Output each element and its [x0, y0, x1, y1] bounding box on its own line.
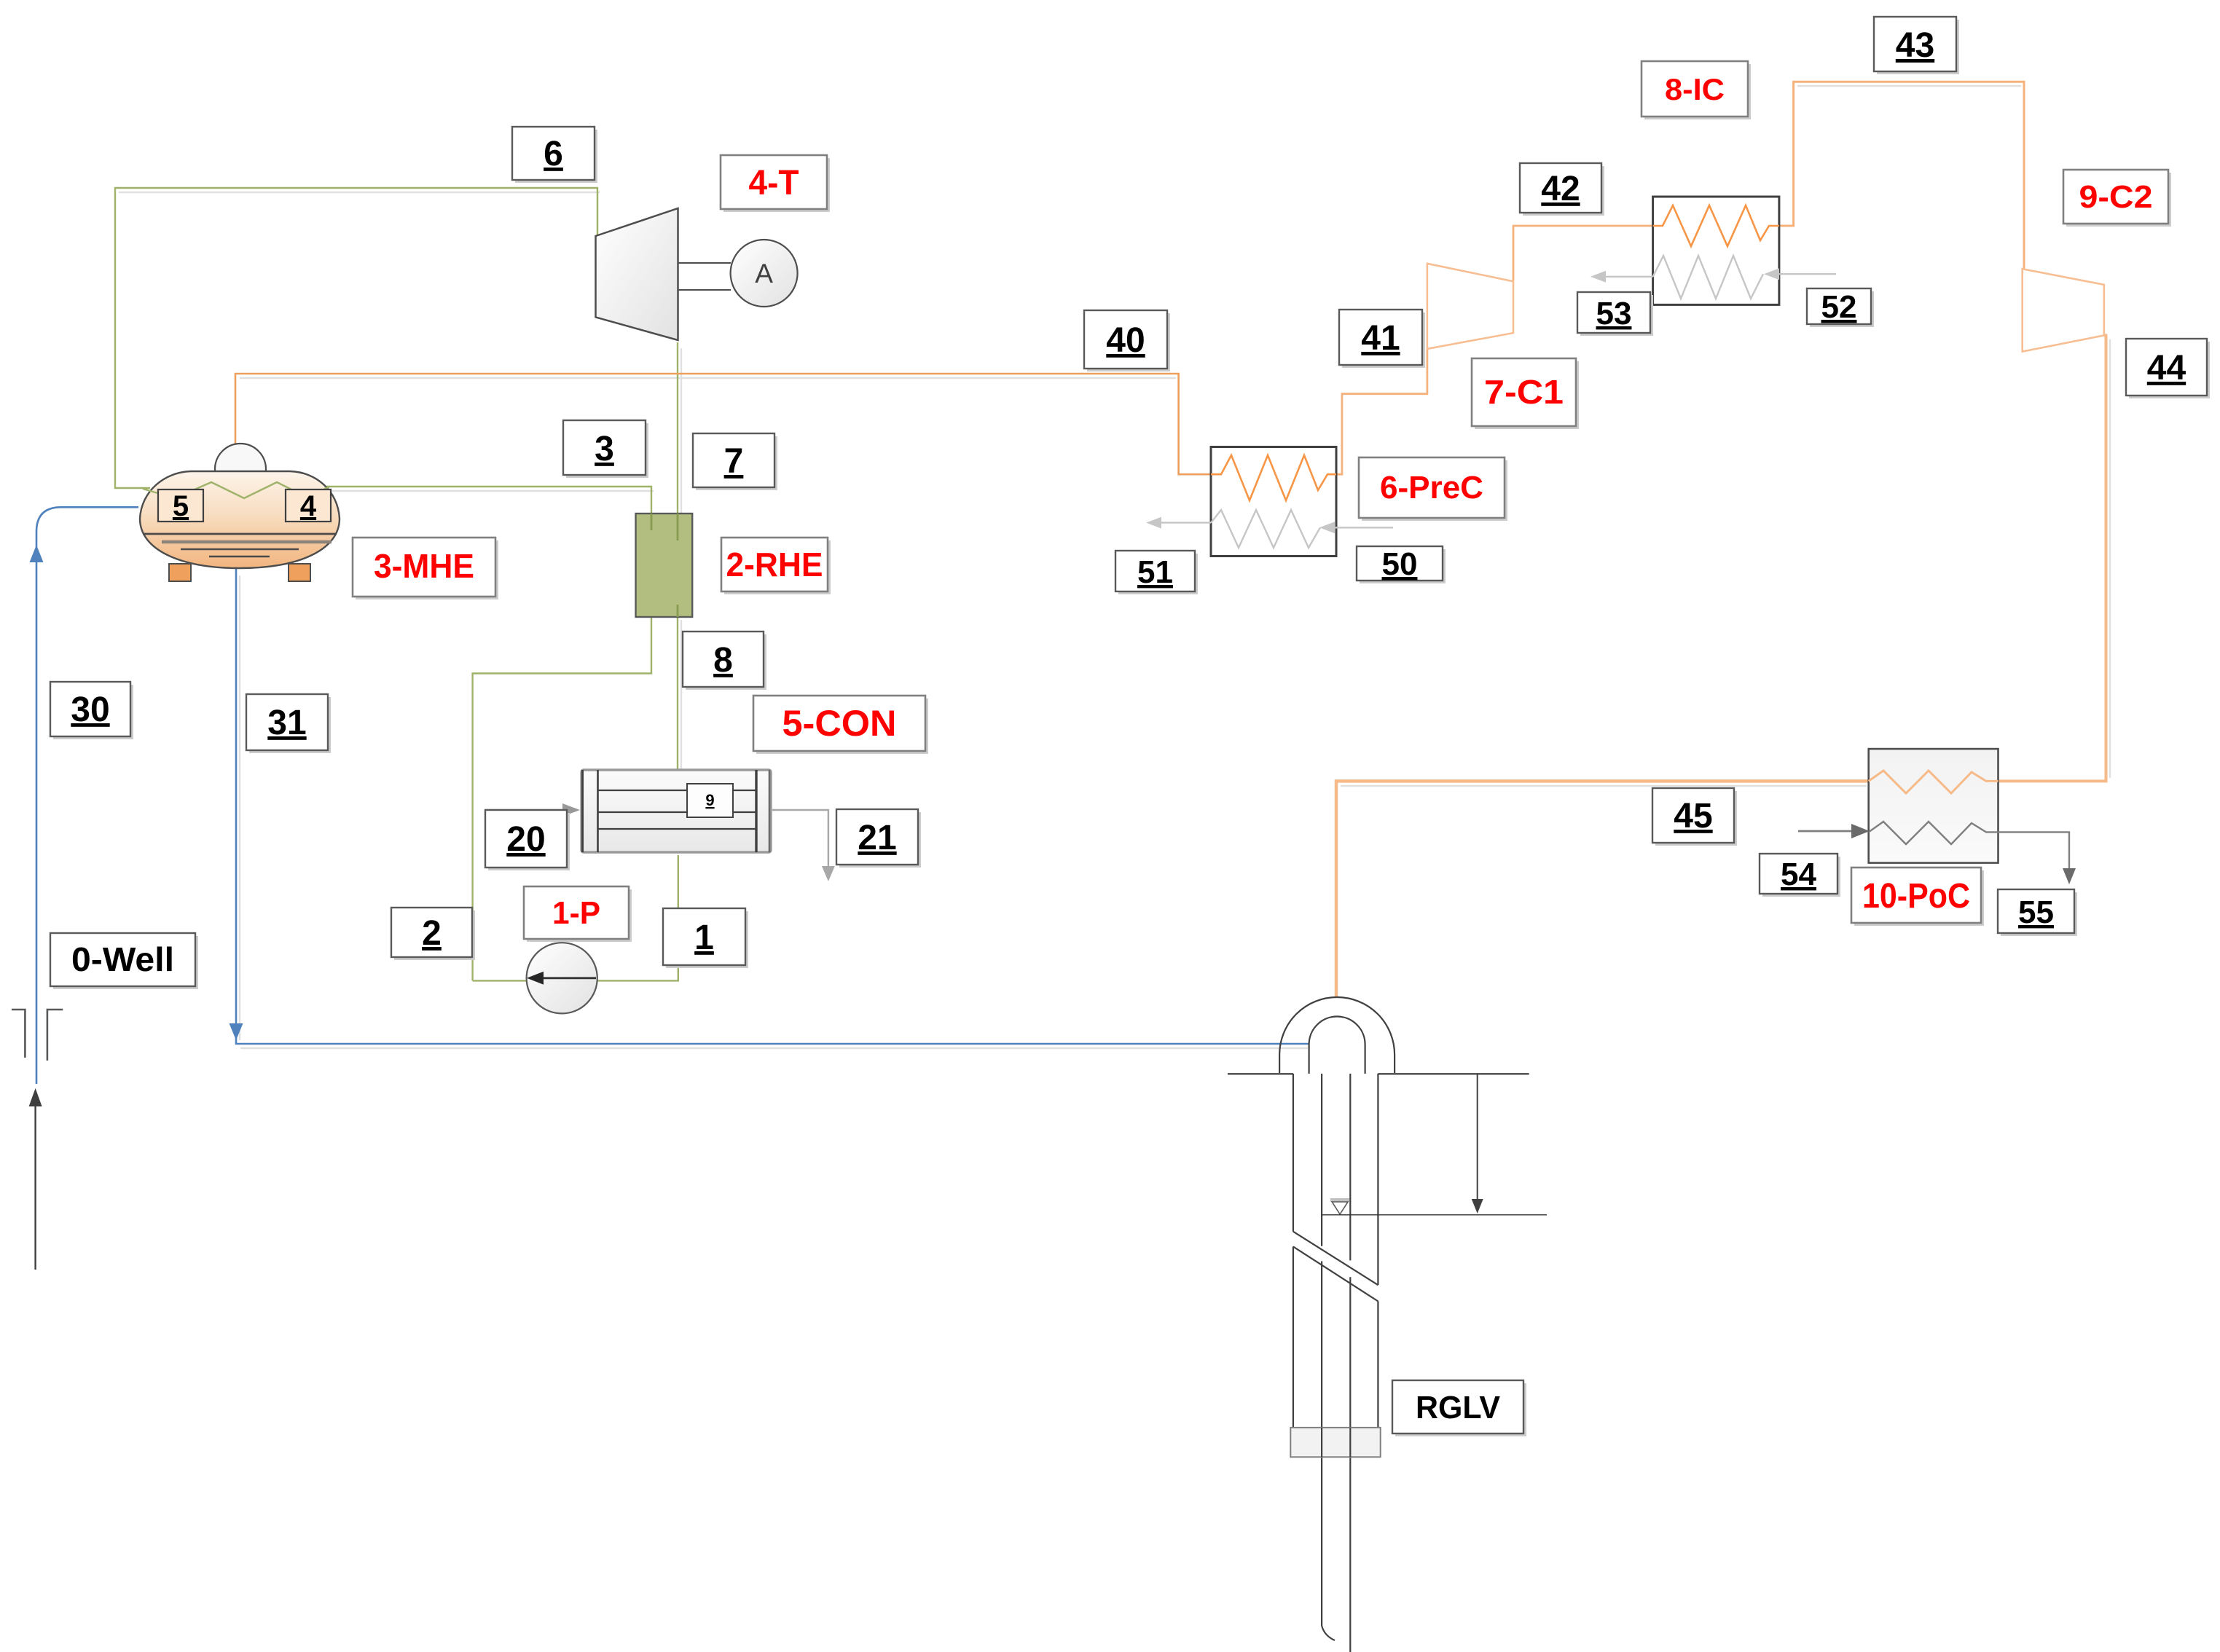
wire 40 (NCG from separator to 6-PreC, orange): [235, 374, 1212, 474]
svg-text:4-T: 4-T: [749, 164, 799, 202]
svg-text:40: 40: [1106, 321, 1145, 360]
postcooler 10-PoC: [1798, 749, 2076, 884]
svg-text:1: 1: [694, 919, 714, 957]
svg-text:43: 43: [1896, 26, 1934, 65]
svg-text:31: 31: [267, 704, 306, 742]
inner U: [1309, 1017, 1365, 1074]
label 9-C2: [2063, 170, 2171, 227]
heat exchanger 2-RHE: [636, 514, 693, 617]
depth arrow: [1472, 1074, 1483, 1214]
svg-text:8-IC: 8-IC: [1665, 72, 1725, 106]
coil zigzag through vessel (green): [143, 482, 329, 498]
turbine 4-T: [596, 208, 731, 340]
svg-text:52: 52: [1821, 289, 1857, 325]
svg-text:53: 53: [1596, 296, 1632, 331]
svg-text:A: A: [755, 259, 773, 288]
wellhead 0-Well casing brackets: [12, 1010, 63, 1061]
label 10-PoC: [1851, 868, 1984, 926]
svg-text:2: 2: [422, 914, 442, 953]
separator vessel 3-MHE: [140, 444, 340, 581]
water coil: [1869, 822, 1999, 844]
packer: [1290, 1428, 1380, 1457]
0-Well upflow arrow (black): [29, 1088, 42, 1270]
nozzle box 5: [158, 489, 203, 522]
nozzle box 4: [286, 489, 331, 522]
wire 3 (RHE to MHE coil, green): [326, 487, 651, 515]
tubing left wall: [1321, 1074, 1322, 1246]
svg-text:30: 30: [71, 691, 109, 729]
node 44: [2126, 339, 2210, 398]
water out arrow left: [1157, 522, 1211, 523]
tubing bottom break: [1322, 1626, 1335, 1640]
node 6: [512, 127, 597, 183]
node 3: [563, 420, 648, 478]
wire 44 (9-C2 to 10-PoC, orange): [1999, 335, 2106, 781]
label 3-MHE: [353, 538, 498, 599]
intercooler 8-IC: [1591, 197, 1836, 304]
node 43: [1874, 17, 1959, 74]
compressor 9-C2: [2023, 269, 2104, 352]
label 6-PreC: [1359, 457, 1507, 521]
node 53: [1577, 292, 1653, 336]
node 40: [1084, 310, 1170, 371]
svg-text:9: 9: [705, 791, 714, 809]
svg-text:0-Well: 0-Well: [71, 940, 174, 978]
leg right: [289, 564, 310, 581]
water in line right: [1330, 527, 1393, 528]
svg-text:1-P: 1-P: [552, 895, 600, 931]
node 50: [1357, 546, 1446, 583]
wire 42 (7-C1 to 8-IC, orange): [1513, 226, 1654, 280]
water out arrow right: [1999, 832, 2070, 873]
node 2: [391, 908, 475, 960]
wire 2 (RHE bottom to pump suction loop, green): [473, 615, 651, 980]
right casing wall: [1377, 1074, 1378, 1285]
water in line right: [1775, 273, 1836, 275]
svg-text:4: 4: [300, 490, 317, 522]
wire 1 (pump to condenser bottom, green): [473, 855, 678, 980]
RGLV well loop: [1279, 997, 1395, 1074]
small tag 9: [687, 784, 733, 817]
wire 30 (well to separator, blue): [36, 507, 138, 1084]
svg-text:5-CON: 5-CON: [783, 703, 897, 744]
svg-text:21: 21: [858, 819, 896, 857]
svg-text:44: 44: [2147, 349, 2186, 388]
node 8: [683, 632, 766, 690]
wire 45 (10-PoC to RGLV, orange): [1336, 781, 1869, 996]
body: [140, 471, 340, 568]
svg-text:7-C1: 7-C1: [1484, 373, 1564, 411]
node RGLV: [1392, 1380, 1526, 1436]
compressor 7-C1: [1427, 264, 1513, 349]
wire 21 outlet arrow: [771, 810, 828, 870]
water coil: [1653, 256, 1763, 299]
wire 8 (RHE to condenser, green): [677, 615, 678, 771]
node 0-Well: [50, 933, 198, 989]
wire 7 (turbine exhaust to RHE, green): [677, 342, 678, 515]
arrow up on wire 30: [30, 545, 44, 562]
svg-text:6-PreC: 6-PreC: [1380, 470, 1483, 506]
svg-text:42: 42: [1541, 170, 1580, 208]
node 55: [1998, 889, 2077, 936]
svg-text:9-C2: 9-C2: [2079, 179, 2153, 215]
orange coil: [1653, 205, 1779, 246]
svg-text:51: 51: [1137, 554, 1173, 590]
wire 6 (vapor MHE to turbine, green): [115, 188, 597, 488]
label 2-RHE: [721, 538, 831, 594]
arrow down on wire 31: [230, 1023, 243, 1040]
node 21: [836, 809, 921, 868]
svg-text:55: 55: [2018, 894, 2054, 930]
svg-text:5: 5: [173, 490, 189, 522]
precooler 6-PreC: [1146, 447, 1393, 556]
node 54: [1760, 854, 1840, 897]
wire 43 (8-IC to 9-C2, orange): [1779, 82, 2024, 270]
svg-text:54: 54: [1781, 857, 1816, 892]
svg-text:45: 45: [1674, 797, 1712, 835]
wire 31 (separator liquid to RGLV, blue): [236, 568, 1309, 1044]
label 1-P: [524, 886, 632, 942]
node 45: [1652, 788, 1737, 846]
svg-text:10-PoC: 10-PoC: [1862, 877, 1970, 916]
tubing right wall: [1349, 1074, 1351, 1260]
node 20: [485, 810, 570, 870]
wire 41 (6-PreC to 7-C1, orange): [1336, 348, 1427, 474]
wire shadows: [119, 86, 2110, 1048]
svg-text:RGLV: RGLV: [1416, 1390, 1501, 1425]
label 8-IC: [1642, 61, 1751, 119]
node 1: [663, 908, 748, 968]
svg-text:6: 6: [544, 135, 563, 173]
dome: [215, 444, 266, 495]
svg-text:8: 8: [713, 641, 733, 680]
node 42: [1520, 163, 1604, 216]
label 7-C1: [1472, 358, 1579, 429]
liquid hatch lines: [162, 540, 332, 544]
liquid level line: [143, 533, 337, 535]
water out arrow left: [1601, 276, 1653, 278]
generator A: [731, 240, 798, 307]
label 5-CON: [753, 696, 928, 754]
water level mark: [1322, 1198, 1547, 1215]
ground line: [1228, 1073, 1529, 1075]
left casing wall: [1293, 1074, 1294, 1232]
svg-text:2-RHE: 2-RHE: [726, 546, 823, 583]
water coil: [1211, 510, 1320, 548]
node 7: [693, 433, 777, 490]
label 4-T: [721, 155, 830, 212]
node 31: [246, 694, 331, 753]
svg-text:50: 50: [1382, 546, 1418, 582]
svg-text:7: 7: [724, 442, 744, 481]
svg-text:3-MHE: 3-MHE: [374, 547, 474, 585]
svg-text:3: 3: [595, 430, 614, 468]
shaft: [678, 262, 731, 264]
crossover diagonal lower: [1293, 1246, 1378, 1301]
node 41: [1339, 310, 1425, 368]
svg-text:20: 20: [506, 820, 545, 859]
node 30: [50, 682, 133, 739]
node 51: [1115, 551, 1198, 594]
water in arrow left: [1798, 830, 1856, 833]
pump 1-P: [527, 943, 597, 1013]
leg left: [169, 564, 191, 581]
node 52: [1807, 288, 1874, 327]
orange coil: [1211, 455, 1336, 500]
outer U: [1279, 997, 1395, 1074]
crossover diagonal upper: [1293, 1232, 1378, 1286]
well bore RGLV: [1293, 1074, 1378, 1652]
condenser 5-CON: [485, 770, 835, 881]
svg-text:41: 41: [1361, 319, 1400, 358]
wire 20 inlet arrow: [485, 809, 567, 811]
orange coil: [1869, 771, 1999, 793]
